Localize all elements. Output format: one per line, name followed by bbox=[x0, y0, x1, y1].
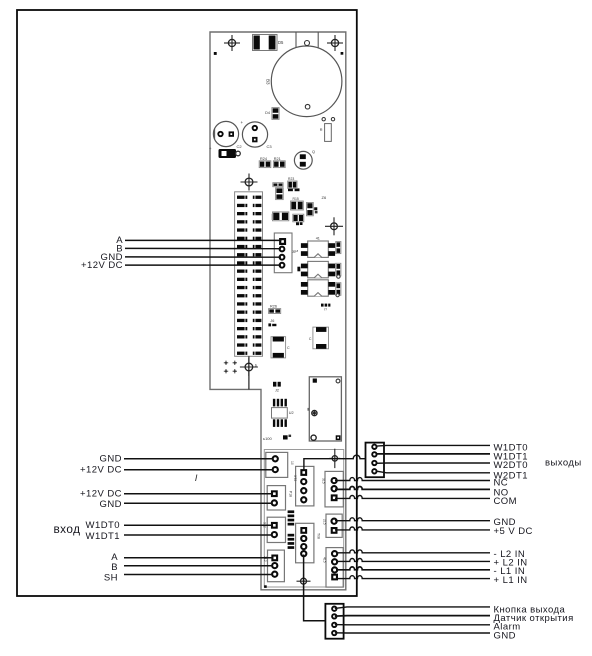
wire B bbox=[125, 247, 281, 249]
buzzer bottom hole bbox=[305, 104, 310, 109]
wire SH (bottom) bbox=[124, 574, 273, 576]
svg-text:+12V DC: +12V DC bbox=[80, 464, 122, 475]
wire Датчик открытия bbox=[335, 615, 490, 618]
pad bbox=[301, 497, 306, 502]
via dot bbox=[341, 52, 344, 55]
external connector X1 (outputs) bbox=[366, 443, 385, 478]
wire Alarm bbox=[335, 624, 490, 626]
via dot bbox=[214, 52, 217, 55]
tab of D2 bbox=[272, 214, 274, 220]
wire W1DT1 (input) bbox=[124, 534, 273, 536]
svg-text:10: 10 bbox=[290, 461, 294, 465]
wire GND (bottom) bbox=[335, 632, 490, 634]
svg-text:SH: SH bbox=[104, 572, 118, 583]
pad J1-2 bbox=[280, 247, 285, 252]
pad bbox=[331, 494, 338, 501]
buzzer notch right edge bbox=[317, 32, 319, 48]
PCB board outline bbox=[210, 32, 346, 590]
wire GND bbox=[125, 256, 281, 258]
connector J1 bbox=[274, 233, 292, 273]
svg-text:C: C bbox=[287, 346, 290, 350]
svg-text:GND: GND bbox=[494, 630, 516, 641]
wire - L1 IN bbox=[336, 567, 490, 570]
svg-text:U2: U2 bbox=[289, 411, 294, 415]
connector XT2 (4-pin mid upper) bbox=[296, 466, 314, 506]
svg-text:315: 315 bbox=[322, 478, 326, 484]
electrolytic capacitor C2 bbox=[242, 122, 267, 147]
svg-text:вход: вход bbox=[53, 522, 80, 536]
pad bbox=[331, 527, 338, 534]
op-amp U2 (SOIC-8) bbox=[272, 399, 288, 427]
pad bbox=[271, 555, 278, 562]
mounting hole H4 bbox=[325, 217, 343, 235]
wire XT3 pin4 to X2 bbox=[304, 555, 326, 621]
svg-text:выходы: выходы bbox=[545, 458, 582, 469]
resistor R12 bbox=[336, 263, 341, 276]
svg-text:P18: P18 bbox=[289, 491, 293, 497]
svg-text:+12V DC: +12V DC bbox=[81, 260, 123, 271]
svg-text:COM: COM bbox=[494, 496, 518, 507]
pad bbox=[218, 132, 222, 136]
capacitor C8 bbox=[307, 203, 314, 216]
mounting hole H7 bbox=[297, 574, 311, 588]
svg-text:212: 212 bbox=[263, 556, 267, 562]
pad bbox=[301, 536, 306, 541]
pad bbox=[301, 544, 306, 549]
svg-text:W1DT0: W1DT0 bbox=[86, 520, 120, 531]
jumper J2 bbox=[273, 382, 281, 387]
pad bbox=[301, 551, 306, 556]
resistor R21 body bbox=[273, 161, 285, 168]
optocoupler U4 bbox=[301, 261, 335, 277]
wire +5 V DC bbox=[335, 527, 490, 530]
buzzer notch left edge bbox=[295, 32, 297, 48]
wire +12V DC (left lower) bbox=[124, 493, 273, 495]
wire GND (left upper) bbox=[124, 458, 273, 460]
wire GND (left lower) bbox=[124, 502, 273, 504]
pad bbox=[300, 469, 307, 476]
pad X1-4 bbox=[372, 469, 376, 473]
wire W1DT0 bbox=[376, 444, 491, 447]
diode D4 body bbox=[272, 108, 279, 120]
svg-text:R23: R23 bbox=[288, 177, 294, 181]
wire W1DT0 (input) bbox=[124, 524, 273, 526]
pin header XP1 outline bbox=[235, 192, 263, 356]
pin header XP1 pads bbox=[237, 196, 261, 355]
wire +12V DC bbox=[125, 264, 281, 266]
wire header to hole H5 bbox=[248, 356, 250, 389]
wire + L2 IN bbox=[336, 559, 490, 562]
resistor R16 bbox=[293, 214, 304, 222]
connector XT5 (NC/NO/COM) bbox=[325, 471, 343, 507]
svg-text:W1DT1: W1DT1 bbox=[86, 531, 120, 542]
relay K1 bbox=[308, 377, 342, 441]
svg-text:215: 215 bbox=[323, 519, 327, 525]
svg-text:W2DT0: W2DT0 bbox=[494, 460, 528, 471]
diode D2 bbox=[273, 212, 289, 221]
external connector X2 (bottom) bbox=[325, 604, 343, 639]
svg-text:41: 41 bbox=[316, 237, 320, 241]
wire B (bottom) bbox=[124, 565, 273, 567]
capacitor C10 bbox=[271, 337, 286, 358]
connector XT3 (4-pin mid lower) bbox=[296, 523, 314, 563]
svg-text:+ L1 IN: + L1 IN bbox=[494, 575, 528, 586]
svg-text:C: C bbox=[309, 337, 312, 341]
pad bbox=[253, 126, 257, 130]
wire NC bbox=[335, 478, 490, 481]
optocoupler U5 bbox=[301, 280, 335, 296]
wire COM bbox=[335, 496, 490, 499]
connector XS1 (GND/+12V upper) bbox=[266, 452, 288, 477]
pad bbox=[331, 574, 338, 581]
wire Кнопка выхода bbox=[335, 607, 490, 609]
resistor stack RN1 bbox=[288, 510, 295, 525]
diode D5 bbox=[253, 35, 278, 51]
connector XT6 (GND/+5V) bbox=[326, 514, 342, 537]
wire A bbox=[125, 239, 282, 241]
pad J1-1 bbox=[279, 238, 286, 245]
pad X2-3 bbox=[332, 623, 336, 627]
resistor R19 bbox=[273, 183, 283, 187]
transistor Q1 bbox=[294, 151, 312, 169]
pad bbox=[272, 532, 277, 537]
via cluster bbox=[224, 361, 237, 374]
electrolytic capacitor C1 bbox=[213, 121, 238, 146]
buzzer B1 big circle bbox=[271, 46, 342, 117]
pad X2-1 bbox=[332, 607, 336, 611]
resistor R22 bbox=[314, 207, 317, 213]
resistor stack RN2 bbox=[288, 534, 295, 549]
svg-text:GND: GND bbox=[100, 499, 122, 510]
pad bbox=[300, 527, 307, 534]
wire W1DT1 bbox=[376, 453, 491, 455]
svg-text:ь100: ь100 bbox=[263, 436, 273, 441]
pad J1-3 bbox=[280, 255, 285, 260]
svg-text:R: R bbox=[320, 128, 323, 132]
wire A (bottom) bbox=[124, 557, 274, 559]
capacitor C11 bbox=[313, 327, 329, 349]
pad bbox=[332, 551, 337, 556]
pad bbox=[332, 567, 337, 572]
svg-text:T08: T08 bbox=[317, 533, 321, 539]
pad bbox=[273, 456, 278, 461]
wire + L1 IN bbox=[336, 576, 490, 579]
wire XT2 pin1 to X1 bbox=[304, 455, 366, 471]
svg-text:Z6: Z6 bbox=[322, 195, 327, 200]
resistor R23 bbox=[288, 181, 297, 188]
svg-text:b: b bbox=[255, 364, 257, 368]
svg-text:r?: r? bbox=[324, 308, 327, 312]
buzzer top hole bbox=[305, 41, 310, 46]
pad J1-4 bbox=[280, 263, 285, 268]
wire GND (right) bbox=[335, 518, 490, 521]
svg-text:+5 V DC: +5 V DC bbox=[494, 526, 533, 537]
pad X2-2 bbox=[332, 614, 336, 618]
svg-text:D5: D5 bbox=[278, 40, 284, 45]
resistor R26 body bbox=[269, 309, 281, 314]
pad X1-3 bbox=[372, 461, 376, 465]
pad bbox=[332, 519, 337, 524]
mounting hole H2 bbox=[327, 35, 343, 51]
resistor R13 bbox=[336, 283, 341, 296]
pad bbox=[272, 563, 277, 568]
connector XS3 (W1DT0/W1DT1) bbox=[267, 517, 285, 542]
wire NO bbox=[335, 486, 490, 489]
pad bbox=[272, 572, 277, 577]
resistor R17 bbox=[296, 222, 303, 225]
pad bbox=[332, 559, 337, 564]
svg-text:Q: Q bbox=[312, 150, 315, 154]
mounting hole H5 bbox=[240, 358, 258, 376]
corner fiducial bbox=[264, 585, 267, 588]
svg-text:C3: C3 bbox=[267, 144, 273, 149]
wire W2DT1 bbox=[376, 471, 491, 473]
svg-text:B3: B3 bbox=[266, 79, 271, 85]
pad bbox=[332, 486, 337, 491]
mounting hole H1 bbox=[224, 35, 240, 51]
pad X1-1 bbox=[372, 445, 376, 449]
resistor R2 vertical bbox=[322, 118, 335, 142]
svg-text:415: 415 bbox=[323, 557, 327, 563]
wire +12V DC (left upper) bbox=[124, 469, 273, 471]
3 via dots bbox=[321, 304, 330, 307]
resistor R15 bbox=[291, 201, 304, 210]
svg-text:+: + bbox=[241, 120, 244, 125]
pad bbox=[301, 488, 306, 493]
PCB inner silk rectangle (bottom section) bbox=[264, 450, 343, 588]
svg-text:R15: R15 bbox=[293, 197, 299, 201]
pad bbox=[301, 479, 306, 484]
svg-text:J5: J5 bbox=[292, 250, 296, 254]
optocoupler U3 bbox=[301, 241, 335, 257]
mounting hole H6 bbox=[329, 449, 340, 468]
connector XT7 (L IN) bbox=[326, 548, 343, 588]
tantalum capacitor C4 bbox=[219, 149, 241, 158]
connector XS2 (+12V/GND) bbox=[267, 486, 285, 510]
wire - L2 IN bbox=[336, 550, 490, 553]
svg-text:XT2: XT2 bbox=[293, 475, 297, 481]
pad bbox=[271, 522, 278, 529]
svg-text:C2: C2 bbox=[237, 144, 243, 149]
svg-text:GND: GND bbox=[100, 453, 122, 464]
resistor R18 bbox=[288, 188, 300, 191]
svg-text:R26: R26 bbox=[270, 304, 277, 308]
pad bbox=[273, 467, 278, 472]
svg-text:J6: J6 bbox=[270, 319, 274, 323]
pad bbox=[272, 500, 277, 505]
pad bbox=[271, 490, 278, 497]
resistor R24 body bbox=[259, 161, 271, 168]
resistor R11 bbox=[336, 242, 341, 254]
svg-text:J2: J2 bbox=[275, 389, 279, 393]
pad bbox=[332, 478, 337, 483]
mounting hole H3 bbox=[241, 174, 258, 191]
pad X2-4 bbox=[332, 631, 336, 635]
capacitor C7 bbox=[276, 188, 284, 200]
border frame bbox=[17, 10, 357, 596]
connector XS4 (A/B/SH) bbox=[268, 550, 285, 582]
pad X1-2 bbox=[372, 452, 376, 456]
svg-text:+: + bbox=[209, 146, 212, 151]
wire W2DT0 bbox=[376, 462, 491, 464]
svg-text:D4: D4 bbox=[265, 111, 270, 115]
